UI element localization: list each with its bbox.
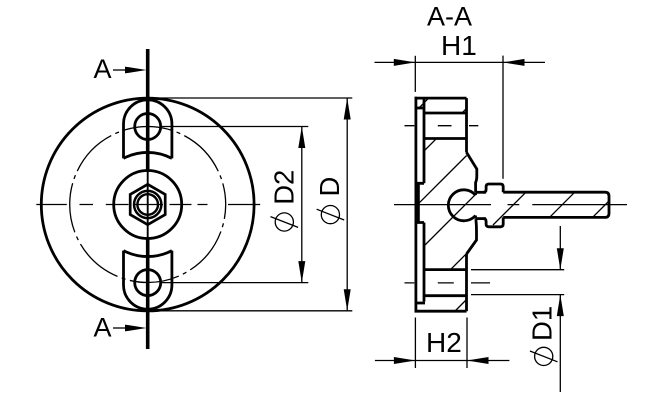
section line thin middle — [147, 170, 149, 238]
ext lines dia D1 — [471, 269, 564, 271]
top hole centerline — [405, 125, 479, 127]
hatch web-ball c670 — [424, 194, 476, 246]
section view axis centerline — [394, 204, 627, 206]
hex nut — [130, 184, 165, 224]
svg-text:H1: H1 — [441, 30, 477, 61]
ext line H1 left — [414, 56, 416, 92]
bottom hole centerline — [405, 282, 491, 284]
svg-text:D: D — [314, 177, 345, 197]
svg-text:A: A — [94, 54, 112, 84]
ext line H2 right — [466, 318, 468, 369]
outer circle diameter D — [41, 98, 254, 311]
right face upper — [465, 98, 468, 152]
center boss circle — [114, 171, 182, 239]
top hole bottom line — [424, 137, 467, 140]
neck bottom — [476, 217, 487, 220]
rim box bottom top — [416, 107, 424, 110]
dim line dia D1 top — [559, 226, 561, 270]
label dia D — [317, 206, 345, 224]
svg-text:A-A: A-A — [427, 2, 472, 32]
top hole top line — [424, 112, 467, 115]
ext lines diameter D — [153, 97, 353, 99]
top lobe arch — [124, 100, 172, 159]
section cutting line A-A — [146, 49, 150, 349]
left face — [414, 97, 417, 313]
hatch shaft c767 — [550, 192, 575, 217]
hub chamfer top — [466, 152, 477, 192]
thread outer circle — [133, 190, 163, 220]
svg-text:A: A — [94, 313, 112, 343]
rim box top bottom — [416, 302, 425, 305]
dim line diameter D — [346, 98, 348, 311]
ball-neck step bottom — [474, 216, 477, 219]
ext line H1 right — [502, 56, 504, 179]
svg-text:H2: H2 — [426, 327, 462, 358]
dim line dia D1 bottom — [559, 295, 561, 392]
ext line H2 left — [414, 318, 416, 369]
svg-text:D2: D2 — [269, 170, 300, 205]
bottom hole top line — [424, 268, 467, 271]
rim inner line upper — [423, 98, 426, 183]
shaft — [503, 192, 609, 217]
rim inner line lower — [423, 223, 426, 302]
label dia D1 — [530, 347, 558, 365]
right face lower — [465, 254, 468, 311]
bolt circle diameter D2 (dash-dot thin) — [70, 127, 226, 283]
bottom edge — [415, 310, 467, 313]
horizontal centerline front view — [36, 204, 260, 206]
hub chamfer bottom — [467, 219, 477, 254]
dim line diameter D2 — [301, 127, 303, 283]
hatch shaft end c810 — [593, 202, 609, 218]
dim line H2 — [375, 360, 510, 362]
neck top — [476, 191, 487, 194]
ext lines diameter D2 — [162, 126, 308, 128]
bottom lobe arch — [124, 251, 172, 310]
hatch rim bottom c766 — [456, 300, 467, 311]
bottom hole diameter D1 — [135, 270, 161, 296]
section arrow top — [113, 69, 128, 71]
hatch band c575b — [462, 109, 467, 114]
hatch web c575a — [424, 138, 437, 151]
bottom lobe dish arc — [124, 251, 172, 257]
hatch rim top — [419, 98, 428, 108]
top edge — [415, 97, 467, 100]
top hole diameter D1 — [135, 114, 161, 140]
recess notch — [418, 183, 424, 222]
ball — [448, 190, 475, 221]
ball-neck step top — [474, 192, 477, 195]
hatch collar-shaft c718 — [493, 192, 526, 225]
hatch web c622 — [418, 156, 466, 204]
section arrow bottom — [113, 327, 128, 329]
hatch lines — [418, 98, 608, 310]
hatch hub c720 — [450, 250, 470, 270]
collar — [483, 184, 503, 227]
dim line H1 — [375, 61, 546, 63]
svg-text:D1: D1 — [527, 306, 558, 341]
bottom hole bottom line — [424, 294, 467, 297]
top lobe dish arc — [124, 152, 172, 158]
thread gap ring — [136, 193, 160, 217]
label dia D2 — [271, 213, 299, 231]
